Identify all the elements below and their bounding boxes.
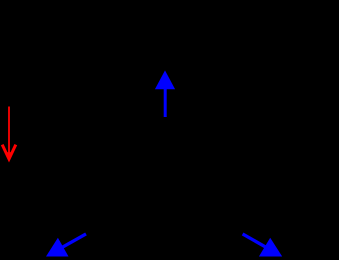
down-right arrow shaft <box>243 234 269 249</box>
blue up arrowhead <box>155 70 175 89</box>
blue up arrow shaft <box>164 88 167 117</box>
blue down-left arrow (bottom left) <box>46 234 86 257</box>
wire: red arrow shaft <box>8 107 10 154</box>
red down arrow (left, inductive effect) <box>2 107 16 160</box>
red arrowhead <box>2 145 16 159</box>
blue down-right arrow (bottom right) <box>243 234 283 257</box>
blue up arrow (center) <box>155 70 175 117</box>
down-left arrowhead <box>46 238 69 257</box>
down-left arrow shaft <box>60 234 86 249</box>
down-right arrowhead <box>259 238 282 257</box>
